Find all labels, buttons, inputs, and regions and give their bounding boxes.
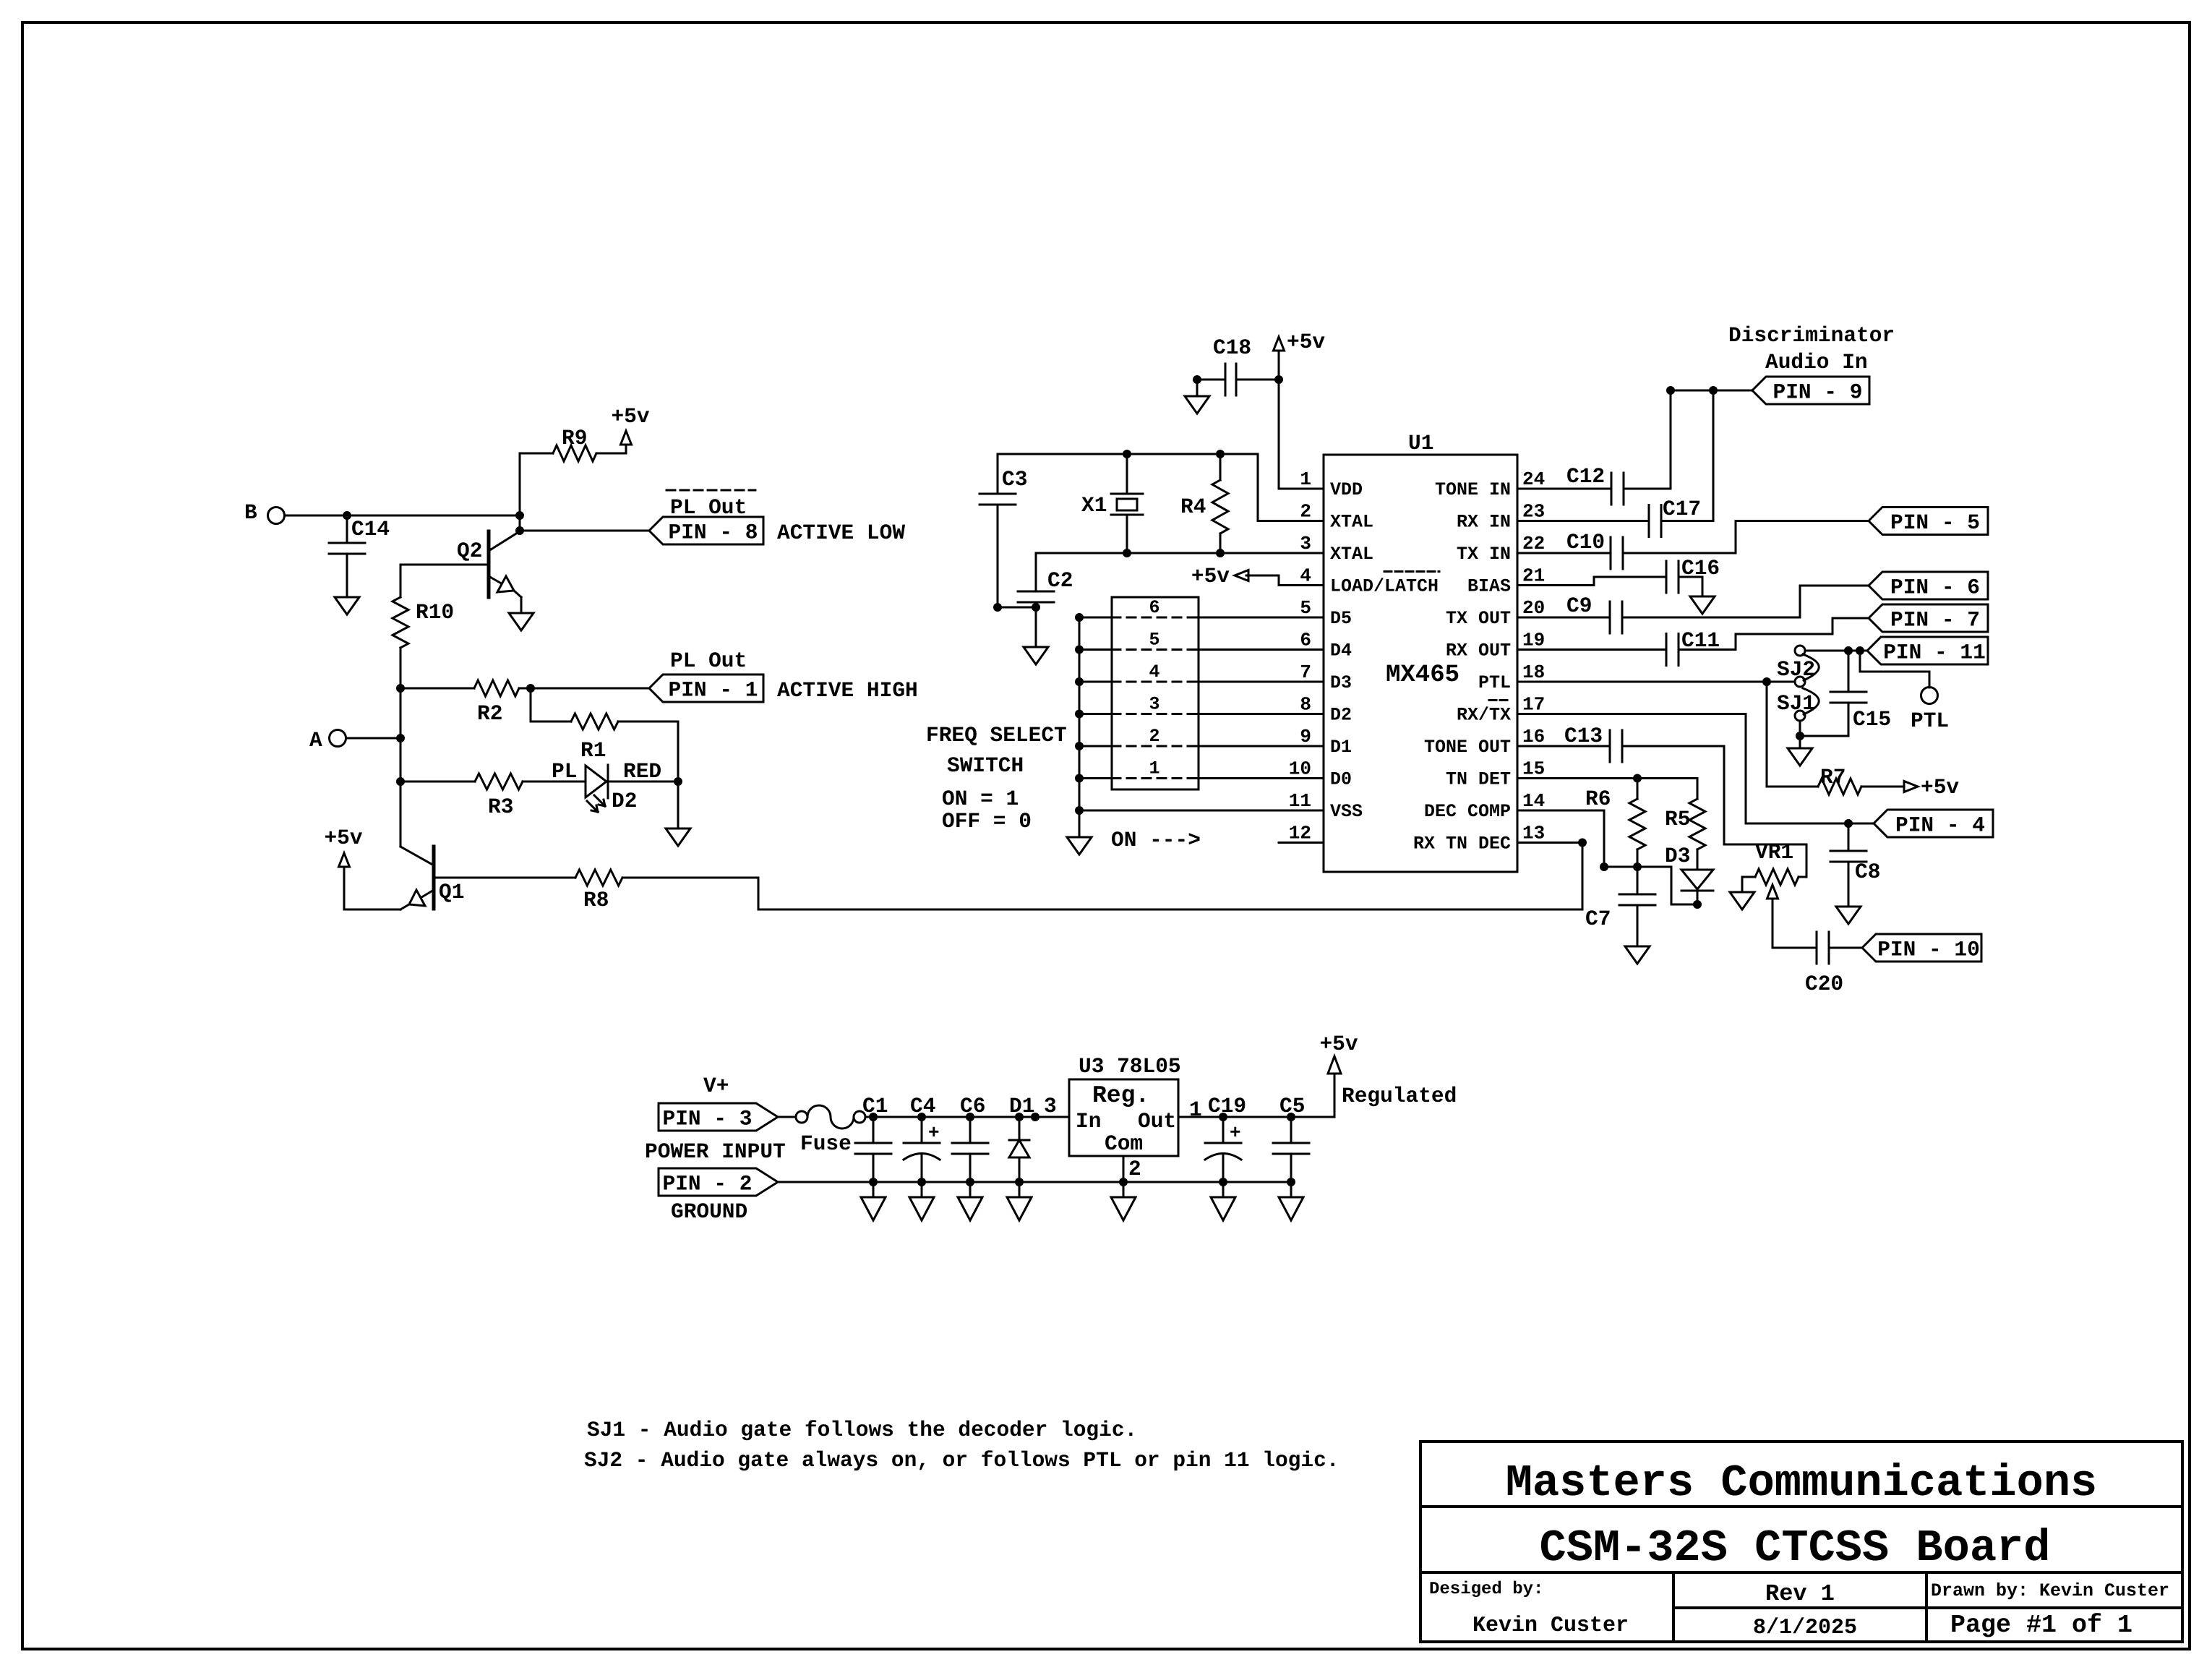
label PL Out (pin 1) (670, 648, 747, 673)
svg-text:XTAL: XTAL (1330, 512, 1373, 533)
label SJ1 (1777, 691, 1815, 716)
LED D2 (586, 765, 678, 813)
svg-text:+5v: +5v (1319, 1032, 1358, 1056)
flag PIN - 4 (1874, 810, 1993, 838)
svg-text:6: 6 (1300, 630, 1311, 651)
svg-text:R8: R8 (583, 888, 609, 912)
junction R2 / R1 (526, 684, 535, 693)
pin 8 label D2 (1330, 705, 1352, 726)
junction at pin 13 corner (1578, 839, 1587, 847)
wire pin 13 RX TN DEC stub (1517, 842, 1582, 844)
resistor R4 (1180, 454, 1228, 553)
svg-text:9: 9 (1300, 726, 1311, 748)
svg-text:In: In (1076, 1109, 1101, 1134)
ground below U3 Com (1111, 1182, 1136, 1220)
label C5 (1279, 1094, 1305, 1118)
regulator U3 78L05 body (1069, 1079, 1178, 1156)
label POWER INPUT (645, 1139, 786, 1164)
label RED (LED right) (623, 759, 661, 784)
svg-text:6: 6 (1149, 597, 1159, 618)
label V+ (703, 1074, 729, 1098)
pin 17 label RX/TX (1457, 705, 1511, 726)
wire SJ1 pad to ground node (1800, 721, 1848, 736)
solder jumper pad middle (1795, 677, 1805, 687)
junction switch bus row 6 (1075, 613, 1084, 622)
svg-text:PIN - 5: PIN - 5 (1890, 510, 1980, 535)
pin 6 label D4 (1330, 641, 1352, 661)
svg-text:5: 5 (1300, 597, 1311, 619)
svg-text:5: 5 (1149, 630, 1159, 651)
svg-text:11: 11 (1289, 790, 1311, 812)
wire logic bus (R10 to Q1 collector) (400, 648, 402, 847)
flag PIN - 10 (1862, 934, 1981, 962)
capacitor C3 (979, 454, 1027, 607)
ground below VR1 left (1730, 892, 1754, 909)
svg-text:3: 3 (1149, 694, 1159, 715)
svg-text:SJ2 - Audio gate always on, or: SJ2 - Audio gate always on, or follows P… (584, 1448, 1339, 1473)
regulator Com lead (1123, 1156, 1141, 1182)
junction PIN-11 / C15 (1844, 646, 1853, 655)
svg-text:ON --->: ON ---> (1111, 828, 1201, 852)
svg-text:Drawn by: Kevin Custer: Drawn by: Kevin Custer (1931, 1580, 2169, 1601)
svg-text:R1: R1 (580, 738, 606, 763)
flag PIN - 8 (649, 517, 763, 545)
switch position 1 (row to D0, pin 10) (1079, 758, 1324, 779)
label GROUND (671, 1199, 747, 1224)
junction rail / D1 (1015, 1113, 1024, 1121)
svg-text:Q2: Q2 (457, 539, 482, 563)
capacitor C6 (952, 1117, 988, 1181)
svg-text:POWER INPUT: POWER INPUT (645, 1139, 786, 1164)
wire C18 to ground (1196, 380, 1199, 396)
label ACTIVE HIGH (777, 678, 918, 703)
svg-text:3: 3 (1044, 1094, 1057, 1118)
junction rail / R4 top (1216, 450, 1225, 458)
flag PIN - 9 (1752, 377, 1869, 405)
svg-text:2: 2 (1128, 1157, 1141, 1181)
capacitor C20 (1772, 932, 1862, 996)
overline for PL Out (active low) (666, 489, 755, 492)
junction C18 / +5v line (1274, 375, 1283, 384)
junction D3 cathode (1693, 900, 1702, 909)
pin 1 label VDD (1330, 479, 1363, 500)
flag PIN - 5 (1869, 508, 1988, 536)
junction switch bus row 2 (1075, 742, 1084, 750)
svg-text:LOAD/LATCH: LOAD/LATCH (1330, 576, 1439, 597)
junction C3 bottom (993, 603, 1002, 612)
node PTL (1911, 688, 1949, 734)
+5v arrow right of R7 (1904, 775, 1959, 800)
pin number 4 (1300, 565, 1311, 587)
svg-text:ACTIVE HIGH: ACTIVE HIGH (777, 678, 918, 703)
resistor R3 (400, 774, 586, 819)
wire C10 to PIN-5 (1736, 521, 1869, 554)
svg-text:FREQ SELECT: FREQ SELECT (926, 723, 1067, 748)
+5v arrow at LOAD/LATCH (1191, 564, 1248, 588)
ground below D1 (1007, 1182, 1032, 1220)
svg-text:20: 20 (1522, 597, 1545, 619)
wire A to bus (346, 737, 400, 740)
junction pin3 rail / X1 bottom (1123, 549, 1131, 557)
svg-text:D0: D0 (1330, 769, 1352, 790)
label Desiged by: (1429, 1580, 1543, 1599)
svg-text:XTAL: XTAL (1330, 544, 1373, 565)
wire Q1 emitter to +5v (344, 868, 400, 909)
ground below Q2 (509, 613, 533, 630)
svg-text:U3 78L05: U3 78L05 (1079, 1054, 1181, 1079)
ground below C19 (1211, 1182, 1235, 1220)
svg-text:+5v: +5v (1191, 564, 1230, 588)
junction node / R6 bottom / C7 (1633, 862, 1642, 871)
wire PIN-9 to C12/C17 (1671, 390, 1752, 392)
diode D3 (1665, 844, 1713, 904)
svg-text:C9: C9 (1566, 594, 1592, 618)
ground below C2/C3 (1024, 647, 1048, 664)
capacitor C12 (pin 24 TONE IN) (1517, 390, 1671, 505)
svg-text:GROUND: GROUND (671, 1199, 747, 1224)
pin number 7 (1300, 661, 1311, 683)
svg-text:Audio In: Audio In (1765, 350, 1868, 374)
wire R8 to pin 13 (long return) (758, 843, 1582, 910)
wire pin 14 DEC COMP to node (1517, 810, 1604, 867)
svg-text:DEC COMP: DEC COMP (1424, 801, 1511, 822)
svg-text:2: 2 (1300, 501, 1311, 523)
pin number 5 (1300, 597, 1311, 619)
svg-text:1: 1 (1300, 468, 1311, 490)
wire +5v to pin 1 VDD (1279, 351, 1324, 489)
pin 9 label D1 (1330, 737, 1352, 758)
svg-text:16: 16 (1522, 726, 1545, 748)
resistor R6 (1585, 779, 1645, 868)
svg-text:Com: Com (1105, 1131, 1143, 1156)
svg-text:C15: C15 (1853, 707, 1891, 732)
svg-text:15: 15 (1522, 758, 1545, 780)
svg-text:C14: C14 (351, 517, 390, 541)
capacitor C9 (pin 20 TX OUT) (1517, 594, 1800, 633)
svg-text:C19: C19 (1208, 1094, 1246, 1118)
junction PIN-9 / C12 riser (1666, 386, 1675, 395)
label ON = 1 (942, 787, 1019, 811)
label ON arrow (1111, 828, 1201, 852)
capacitor C1 (855, 1117, 891, 1181)
title block row divider 1 (1420, 1505, 2182, 1508)
svg-text:TONE OUT: TONE OUT (1424, 737, 1511, 758)
wire C13 to VR1 (1622, 746, 1806, 877)
label Kevin Custer (1472, 1614, 1629, 1638)
ground rail (778, 1181, 1291, 1183)
pin number 14 (1522, 790, 1545, 812)
node A (309, 728, 346, 753)
label Reg. (1092, 1082, 1149, 1109)
capacitor C8 (1830, 823, 1880, 907)
wire Q2 emitter to ground (520, 597, 523, 613)
label MX465 (1386, 661, 1459, 689)
junction rail / C4 (917, 1113, 926, 1121)
svg-text:4: 4 (1300, 565, 1311, 587)
flag PIN - 11 (1867, 637, 1988, 665)
wire Q2 base (400, 565, 489, 597)
junction ground rail / U3 Com (1119, 1178, 1128, 1186)
regulator output rail (1178, 1116, 1334, 1118)
pin number 12 (1289, 823, 1311, 844)
pin 20 label TX OUT (1446, 608, 1511, 629)
switch position 4 (row to D3, pin 7) (1079, 661, 1324, 682)
ground below C7 (1625, 946, 1650, 964)
SJ1 arc (1803, 688, 1819, 714)
label C19 (1208, 1094, 1246, 1118)
svg-text:Kevin Custer: Kevin Custer (1472, 1614, 1629, 1638)
pin 4 label LOAD/LATCH (1330, 576, 1439, 597)
label U1 (1408, 431, 1433, 455)
svg-text:C5: C5 (1279, 1094, 1305, 1118)
pin 13 label RX TN DEC (1413, 834, 1511, 855)
junction C2 bottom / ground (1032, 603, 1040, 612)
junction D2 / R1 / ground (674, 777, 682, 786)
junction bus / R3 (396, 777, 405, 786)
svg-text:R4: R4 (1180, 494, 1206, 519)
freq select switch body (1112, 597, 1199, 789)
IC U1 MX465 body (1324, 455, 1517, 872)
svg-text:SJ2: SJ2 (1777, 657, 1815, 682)
svg-text:13: 13 (1522, 823, 1545, 844)
pin number 11 (1289, 790, 1311, 812)
label D1 (1009, 1094, 1034, 1118)
junction switch bus row 4 (1075, 677, 1084, 686)
svg-text:RED: RED (623, 759, 661, 784)
ground below C1 (861, 1182, 886, 1220)
pin number 1 (1300, 468, 1311, 490)
capacitor C7 (1585, 867, 1655, 946)
pin number 2 (1300, 501, 1311, 523)
junction rail / C6 (966, 1113, 974, 1121)
svg-text:TONE IN: TONE IN (1435, 479, 1511, 500)
switch position 3 (row to D2, pin 8) (1079, 694, 1324, 715)
svg-text:R2: R2 (477, 701, 502, 726)
wire PTL circle feed (1860, 651, 1929, 688)
svg-text:TN DET: TN DET (1446, 769, 1511, 790)
ground below C6 (958, 1182, 982, 1220)
label Audio In (1765, 350, 1868, 374)
capacitor C16 (pin 21 BIAS) (1517, 556, 1720, 596)
capacitor C5 (1273, 1117, 1309, 1181)
fuse F1 (796, 1105, 865, 1156)
pin number 13 (1522, 823, 1545, 844)
junction node / pin14 (1600, 862, 1608, 871)
crystal X1 (1081, 454, 1143, 553)
svg-text:D1: D1 (1009, 1094, 1034, 1118)
svg-text:18: 18 (1522, 661, 1545, 683)
wire C9 to PIN-6 (1800, 586, 1869, 617)
wire +5v regulated riser (1334, 1074, 1336, 1117)
capacitor C4 (polarized) (904, 1117, 940, 1181)
svg-text:R7: R7 (1820, 765, 1846, 789)
junction Q2 collector / pin-8 wire (515, 526, 524, 535)
title block column divider 2 (1925, 1572, 1928, 1642)
title block frame (1420, 1442, 2182, 1642)
pin 5 label D5 (1330, 608, 1352, 629)
wire SJ2 pad to PIN-11 (1805, 650, 1867, 652)
svg-text:ACTIVE LOW: ACTIVE LOW (777, 521, 905, 545)
svg-text:OFF = 0: OFF = 0 (942, 809, 1032, 834)
wire to oscillator ground (1035, 607, 1037, 647)
pin 15 label TN DET (1446, 769, 1511, 790)
junction switch bus row 5 (1075, 646, 1084, 654)
svg-text:PIN - 2: PIN - 2 (663, 1172, 753, 1196)
svg-text:C10: C10 (1566, 530, 1605, 554)
svg-text:+5v: +5v (1287, 330, 1325, 354)
resistor R7 (1767, 682, 1903, 795)
svg-text:C16: C16 (1681, 556, 1720, 581)
flag PIN - 3 (659, 1103, 778, 1131)
svg-text:ON = 1: ON = 1 (942, 787, 1019, 811)
pin number 19 (1522, 630, 1545, 651)
pin number 1 (regulator Out) (1189, 1097, 1202, 1122)
junction out rail / C5 (1287, 1113, 1295, 1121)
label C1 (862, 1094, 888, 1118)
flag PIN - 2 (659, 1168, 778, 1196)
svg-text:TX OUT: TX OUT (1446, 608, 1511, 629)
svg-text:Regulated: Regulated (1342, 1084, 1457, 1108)
pin 2 label XTAL (1330, 512, 1373, 533)
junction ground rail / C5 (1287, 1178, 1295, 1186)
overline on LATCH (1384, 570, 1439, 573)
pin 23 label RX IN (1457, 512, 1511, 533)
svg-text:C11: C11 (1681, 628, 1720, 653)
svg-text:3: 3 (1300, 533, 1311, 554)
label SWITCH (947, 753, 1024, 778)
resistor R9 (520, 426, 626, 531)
label Rev 1 (1765, 1580, 1835, 1607)
title CSM-32S CTCSS Board (1540, 1523, 2051, 1574)
pin 12 stub (1279, 842, 1324, 844)
pin 7 label D3 (1330, 672, 1352, 693)
wire pin 15 TN DET (1517, 777, 1697, 779)
svg-text:Masters Communications: Masters Communications (1506, 1457, 2098, 1509)
svg-text:C18: C18 (1213, 335, 1251, 360)
resistor R10 (393, 597, 454, 648)
svg-text:19: 19 (1522, 630, 1545, 651)
power input rail (865, 1116, 1069, 1118)
junction bus / VSS row (1075, 806, 1084, 815)
pin 3 label XTAL (1330, 544, 1373, 565)
pin 14 label DEC COMP (1424, 801, 1511, 822)
svg-text:U1: U1 (1408, 431, 1433, 455)
capacitor C18 (1197, 335, 1279, 395)
svg-text:SJ1 - Audio gate follows the d: SJ1 - Audio gate follows the decoder log… (587, 1418, 1137, 1442)
ground below C5 (1279, 1182, 1303, 1220)
wire oscillator top rail to pin 2 (998, 454, 1324, 521)
resistor R8 (434, 870, 758, 912)
svg-text:RX/TX: RX/TX (1457, 705, 1511, 726)
capacitor C14 (329, 515, 390, 597)
junction PIN-4 / C8 (1844, 819, 1853, 828)
junction rail / C1 (869, 1113, 878, 1121)
pin 11 label VSS (1330, 801, 1363, 822)
label U3 78L05 (1079, 1054, 1181, 1079)
ground below C8 (1836, 907, 1861, 924)
svg-text:PIN - 7: PIN - 7 (1890, 608, 1980, 633)
capacitor C10 (pin 22 TX IN) (1517, 530, 1736, 569)
svg-text:PIN - 3: PIN - 3 (663, 1107, 753, 1131)
wire PIN-3 to fuse (778, 1116, 796, 1118)
junction pin3 rail / R4 bottom (1216, 549, 1225, 557)
label Regulated (1342, 1084, 1457, 1108)
switch position 6 (row to D5, pin 5) (1079, 597, 1324, 618)
junction PIN-11 / PTL circle (1856, 646, 1864, 655)
label PL Out (pin 8) (670, 495, 747, 520)
node B (244, 500, 285, 525)
svg-text:PIN - 11: PIN - 11 (1883, 641, 1986, 665)
junction switch bus row 1 (1075, 774, 1084, 783)
note SJ1 (587, 1418, 1137, 1442)
wire pin 3 XTAL rail (1036, 552, 1324, 554)
svg-text:PIN - 6: PIN - 6 (1890, 575, 1980, 600)
svg-text:R6: R6 (1585, 787, 1611, 811)
resistor R5 (1665, 779, 1705, 870)
svg-text:12: 12 (1289, 823, 1311, 844)
pin 24 label TONE IN (1435, 479, 1511, 500)
label Com (1105, 1131, 1143, 1156)
wire pin 17 RX/TX to PIN-4 (1517, 714, 1874, 824)
pin number 8 (1300, 694, 1311, 716)
svg-text:CSM-32S CTCSS Board: CSM-32S CTCSS Board (1540, 1523, 2051, 1574)
svg-text:D5: D5 (1330, 608, 1352, 629)
svg-text:RX OUT: RX OUT (1446, 641, 1511, 661)
junction B line / R9 vertical (515, 511, 524, 520)
resistor R1 (531, 688, 678, 782)
pin 18 label PTL (1478, 672, 1511, 693)
junction C18 left / ground (1193, 375, 1201, 384)
svg-text:7: 7 (1300, 661, 1311, 683)
wire +5v to pin 4 (1246, 575, 1324, 586)
svg-text:PIN - 4: PIN - 4 (1895, 813, 1985, 838)
note SJ2 (584, 1448, 1339, 1473)
label SJ2 (1777, 657, 1815, 682)
wire bus to ground (1079, 810, 1081, 837)
svg-text:Rev 1: Rev 1 (1765, 1580, 1835, 1607)
junction rail / X1 top (1123, 450, 1131, 458)
ground below C16 (1690, 596, 1715, 614)
svg-text:Out: Out (1138, 1109, 1176, 1134)
svg-text:14: 14 (1522, 790, 1545, 812)
pin number 6 (1300, 630, 1311, 651)
ground below switch bus (1067, 837, 1092, 855)
ground below C4 (909, 1182, 934, 1220)
svg-text:V+: V+ (703, 1074, 729, 1098)
svg-text:Discriminator: Discriminator (1728, 323, 1895, 348)
svg-text:D2: D2 (1330, 705, 1352, 726)
svg-text:C7: C7 (1585, 907, 1611, 931)
svg-text:1: 1 (1189, 1097, 1202, 1122)
pin number 24 (1522, 468, 1545, 490)
svg-text:C8: C8 (1855, 860, 1880, 884)
label C4 (910, 1094, 935, 1118)
ground below C18 (1185, 396, 1209, 414)
capacitor C19 (polarized) (1205, 1117, 1241, 1181)
svg-text:PTL: PTL (1478, 672, 1511, 693)
label Discriminator (1728, 323, 1895, 348)
flag PIN - 1 (649, 675, 763, 703)
wire C3/C2 common node (998, 607, 1036, 609)
svg-text:C3: C3 (1002, 467, 1027, 492)
junction at C14 top (343, 511, 351, 520)
capacitor C13 (pin 16 TONE OUT) (1517, 724, 1622, 762)
transistor Q1 (400, 847, 464, 909)
title block column divider 1 (1672, 1572, 1675, 1642)
svg-text:17: 17 (1522, 694, 1545, 716)
ground below SJ1 (1788, 748, 1812, 766)
wire to SJ ground (1799, 736, 1801, 748)
